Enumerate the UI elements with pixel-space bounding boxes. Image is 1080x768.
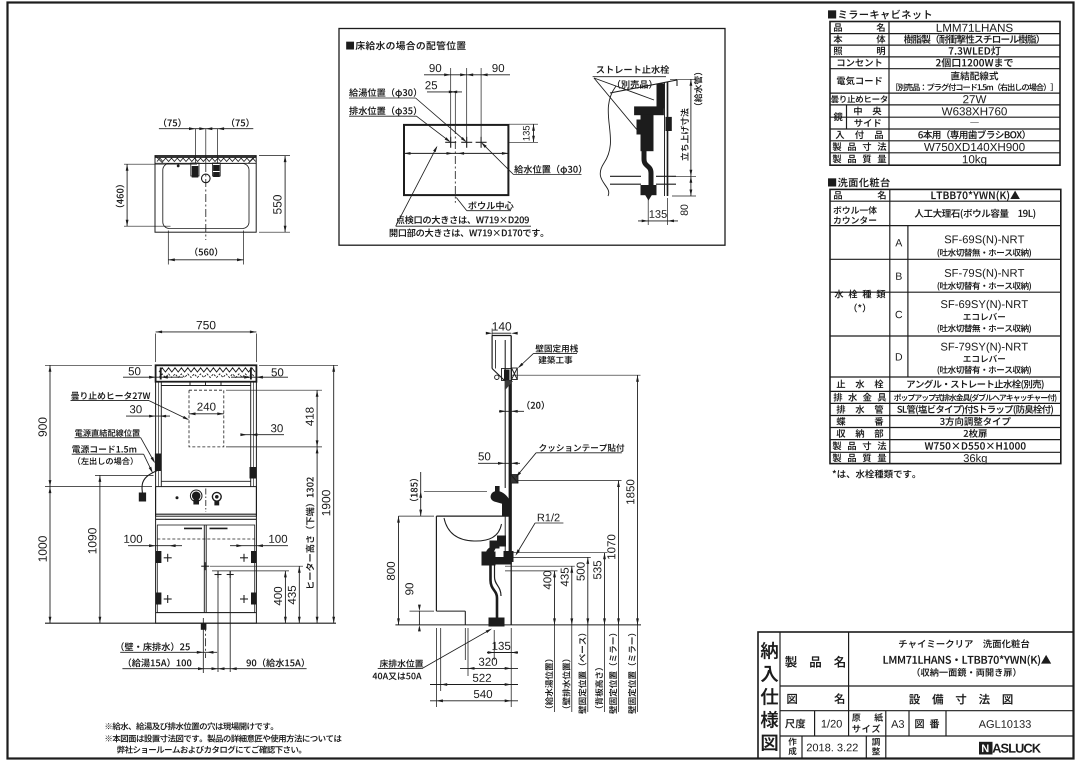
mirror cabinet light box [156, 365, 257, 381]
bottom dims of side view [436, 628, 511, 707]
counter back band with hatch [155, 162, 256, 164]
header 床給水の場合の配管位置 [346, 41, 466, 50]
dim 500 壁固定位置（ベース） [505, 557, 591, 713]
faucet [192, 492, 201, 501]
dim 435 （壁排水位置） [505, 566, 575, 712]
dim 30 right [240, 424, 284, 436]
dim 1070 壁固定位置（ミラー） [517, 481, 621, 714]
dim 400 right [212, 571, 289, 623]
floor line [45, 622, 336, 624]
label wall rail [517, 344, 578, 369]
plumbing detail: straight stop valve [593, 65, 703, 225]
dim (560) [167, 231, 169, 265]
floor drain stub [201, 624, 206, 630]
side elevation (section) [395, 336, 641, 627]
counter & bowl section [436, 515, 511, 517]
dim (185) [410, 472, 487, 516]
back panel [504, 516, 506, 560]
table: mirror cabinet specs [828, 10, 1060, 166]
dim 435 right [210, 566, 303, 623]
dim 50 mirror [478, 452, 520, 464]
counter top slant [610, 80, 677, 93]
label 排水位置（φ35） [349, 106, 416, 116]
faucet on counter (side) [491, 491, 509, 504]
dim 535 （背板高さ） [505, 553, 608, 712]
footnotes [106, 722, 342, 753]
ext lines up [450, 68, 452, 147]
dim 30 left [126, 405, 170, 417]
plan center line [205, 164, 207, 240]
dim 90 90 [424, 74, 510, 76]
dim cold water 90 [212, 658, 307, 670]
dim 1090 [88, 475, 153, 623]
back panel double line [664, 82, 666, 196]
hole crosses: drain, hot, cold [445, 141, 456, 143]
hinge marks [164, 557, 172, 559]
cabinet bottom & kick [436, 610, 465, 612]
mirror body front/back [504, 340, 506, 488]
dim 100 left door [124, 535, 182, 547]
valve assembly [657, 84, 664, 108]
label cushion tape [515, 444, 625, 479]
dim (75)(75) [195, 129, 197, 163]
label 給水位置（φ30） [514, 165, 581, 175]
label floor drain [373, 627, 493, 680]
cabinet bottom panel [610, 175, 641, 177]
dim 1000 left [38, 487, 51, 624]
front elevation of vanity with mirror cabinet [45, 365, 336, 623]
label heater 27W [71, 392, 190, 422]
plan view: washbasin counter top view [116, 118, 290, 264]
dim 900 left [38, 365, 152, 486]
boxed detail: piping position for floor water supply [339, 29, 725, 246]
trap pipe [491, 564, 498, 618]
faucet holes / hardware [191, 163, 199, 176]
bowl outline [163, 164, 249, 229]
power cord [142, 471, 158, 494]
dim 1302 heater height [306, 447, 319, 623]
dim 418 right [226, 390, 322, 447]
drain below bowl [490, 541, 499, 548]
title block [758, 632, 1074, 759]
dim 135 (vertical, right of rect) [509, 123, 538, 125]
values [937, 24, 1013, 32]
dim 400 （給水湯位置） [505, 571, 558, 712]
small ticks on shelf [189, 382, 191, 386]
supply stub lines below cabinet [203, 571, 233, 673]
floor line [395, 624, 641, 626]
dim 550 [284, 156, 286, 233]
dim 140 top [486, 322, 518, 340]
dim 135 drain-wall [487, 642, 518, 654]
wall fixing rail [502, 369, 512, 381]
dim 522 [430, 674, 518, 686]
label power direct wiring [75, 429, 157, 464]
mirror sub-cell [846, 105, 848, 129]
notes W719 [396, 216, 529, 225]
vanity cabinet [156, 516, 257, 623]
label ボウル中心 [468, 201, 513, 210]
table: washstand specs [828, 178, 1061, 479]
dim 320 [460, 658, 518, 670]
dim 80 [672, 195, 696, 197]
dim 1900 right [259, 365, 338, 623]
vertical title 納入仕様図 [761, 642, 778, 659]
supply stops on wall [498, 536, 506, 546]
dim 50 right [231, 368, 288, 378]
label R1/2 [514, 513, 563, 556]
dim 50 left [123, 367, 183, 378]
row labels [834, 191, 842, 199]
dim 750 top [156, 321, 257, 362]
row labels [834, 23, 842, 31]
label power cord 1.5m [72, 445, 154, 474]
cushion tape block [511, 475, 518, 484]
dim 25 [427, 91, 462, 93]
row separators [780, 685, 1074, 687]
labels [597, 65, 670, 74]
S pipe to floor flange [644, 150, 651, 186]
hole center line [404, 152, 508, 154]
wall line [510, 336, 512, 625]
cord outlet boxes [155, 454, 161, 471]
doors [157, 525, 254, 613]
dim riser height [670, 78, 696, 80]
counter section [155, 487, 157, 517]
opening rectangle [404, 125, 508, 195]
dim 240 [189, 413, 224, 415]
label 給湯位置（φ30） [349, 88, 416, 98]
bowl center line [454, 92, 456, 125]
dim 540 [430, 690, 518, 702]
dim 1850 壁固定位置（ミラー） [511, 375, 640, 714]
dim wall/floor drain 25 [120, 642, 217, 653]
product name cell [848, 632, 850, 711]
created row [801, 736, 803, 759]
scale row [814, 711, 816, 736]
dim 90 kick [405, 583, 434, 631]
mirror cabinet body [156, 382, 257, 487]
dim hot water 100 [122, 658, 224, 670]
dim 100 right door [230, 535, 288, 547]
heater dashed rect [189, 390, 224, 447]
dim (20) [499, 401, 544, 413]
note [833, 470, 916, 479]
drawing name row [787, 694, 797, 704]
floor flange [489, 618, 504, 626]
dim 135 bottom [647, 198, 649, 225]
floor flange [641, 186, 656, 195]
values [931, 191, 1020, 201]
dim 800 [387, 516, 434, 625]
counter break (wavy) [600, 86, 616, 196]
wall/mirror: light box [492, 335, 511, 337]
dim (460) [126, 164, 128, 226]
NASLUCK logo [980, 742, 993, 754]
A-D sub column [907, 226, 909, 377]
